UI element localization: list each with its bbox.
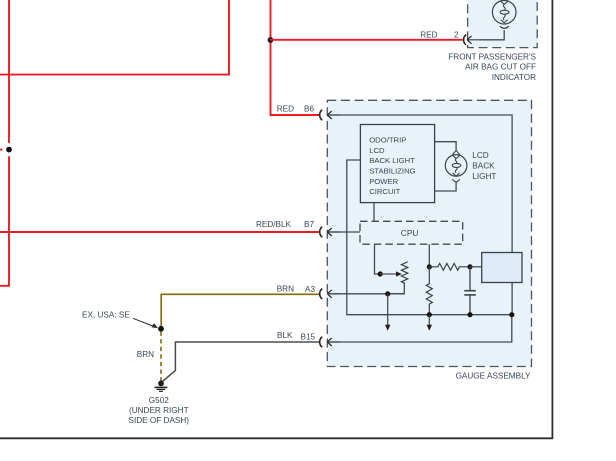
node rail left bbox=[427, 312, 432, 317]
EX USA SE pointer arrow bbox=[133, 318, 158, 328]
gauge: solid box right component bbox=[482, 253, 522, 283]
air bag indicator box (dashed, light blue fill) bbox=[468, 0, 538, 48]
gauge: wires to LCD bulb bbox=[435, 142, 457, 191]
connector B15 arrow bbox=[327, 338, 340, 346]
lamp: LCD back light bbox=[445, 150, 467, 182]
connector B6 arrow bbox=[327, 111, 340, 119]
wire red/blk to B7 bbox=[0, 231, 319, 233]
wire A3 node down arrow bbox=[385, 294, 390, 331]
svg-text:B6: B6 bbox=[304, 104, 314, 113]
wire red stub left of node bbox=[0, 149, 3, 151]
gauge: wire B7 to CPU bbox=[328, 231, 361, 233]
svg-text:ODO/TRIP: ODO/TRIP bbox=[369, 136, 406, 145]
connector A3 arrow bbox=[327, 290, 340, 298]
svg-text:A3: A3 bbox=[305, 285, 315, 294]
svg-text:RED/BLK: RED/BLK bbox=[256, 220, 292, 229]
svg-text:CPU: CPU bbox=[401, 228, 419, 238]
node rail right bbox=[509, 312, 514, 317]
gauge: ODO/TRIP box bbox=[360, 125, 434, 203]
node junction top bbox=[268, 37, 274, 43]
ground G502 bbox=[155, 381, 168, 392]
svg-text:G502: G502 bbox=[149, 396, 169, 405]
svg-text:(UNDER RIGHT: (UNDER RIGHT bbox=[129, 406, 189, 415]
wire brn dashed to ground bbox=[160, 332, 162, 382]
gauge: wire B15 bbox=[328, 315, 512, 342]
svg-text:CIRCUIT: CIRCUIT bbox=[369, 187, 400, 196]
gauge: ODO box text bbox=[369, 136, 415, 197]
connector B6 (female arc) bbox=[320, 110, 323, 120]
resistor vertical bbox=[426, 267, 432, 315]
svg-text:BRN: BRN bbox=[277, 285, 294, 294]
svg-text:B7: B7 bbox=[304, 220, 314, 229]
wire brn to A3 bbox=[161, 294, 319, 329]
svg-text:STABILIZING: STABILIZING bbox=[369, 167, 415, 176]
gauge: wire A3 bbox=[328, 293, 405, 295]
connector pin 2 (female arc) bbox=[464, 35, 467, 45]
node capacitor top bbox=[467, 264, 472, 269]
wire red to air bag indicator pin 2 bbox=[271, 39, 463, 41]
svg-text:B15: B15 bbox=[301, 333, 316, 342]
svg-text:AIR BAG CUT OFF: AIR BAG CUT OFF bbox=[465, 63, 536, 72]
connector B7 (female arc) bbox=[320, 227, 323, 237]
lamp: front passenger's air bag cut off indicator bbox=[492, 0, 516, 28]
wire blk to B15 bbox=[161, 342, 319, 383]
svg-text:LCD: LCD bbox=[472, 151, 488, 160]
gauge: LCD back light label bbox=[472, 151, 496, 181]
svg-text:POWER: POWER bbox=[369, 177, 398, 186]
capacitor C bbox=[464, 267, 476, 315]
node capacitor bottom rail bbox=[467, 312, 472, 317]
svg-text:LIGHT: LIGHT bbox=[472, 172, 496, 181]
svg-text:SIDE OF DASH): SIDE OF DASH) bbox=[129, 416, 190, 425]
svg-text:EX, USA: SE: EX, USA: SE bbox=[82, 310, 130, 319]
svg-text:BACK: BACK bbox=[472, 162, 495, 171]
gauge: wire left rail from ODO box bbox=[347, 160, 512, 315]
wire red vertical left bbox=[0, 0, 9, 286]
connector A3 (female arc) bbox=[320, 289, 323, 299]
svg-text:INDICATOR: INDICATOR bbox=[492, 73, 536, 82]
svg-text:BACK LIGHT: BACK LIGHT bbox=[369, 156, 415, 165]
potentiometer resistive element bbox=[401, 262, 407, 284]
gauge assembly box (dashed, light blue fill) bbox=[327, 100, 531, 366]
node junction brn bbox=[158, 326, 164, 332]
gauge: CPU box (dashed) bbox=[360, 221, 463, 244]
svg-text:FRONT PASSENGER'S: FRONT PASSENGER'S bbox=[448, 52, 536, 61]
gauge: wire ODO box to CPU bbox=[373, 203, 375, 222]
potentiometer wiper arrow bbox=[380, 271, 402, 276]
svg-text:GAUGE ASSEMBLY: GAUGE ASSEMBLY bbox=[456, 371, 531, 380]
wire rail down arrow bbox=[427, 315, 432, 331]
connector pin 2 arrow bbox=[467, 36, 479, 44]
resistor horizontal bbox=[429, 263, 470, 270]
svg-text:LCD: LCD bbox=[369, 146, 385, 155]
connector B15 (female arc) bbox=[320, 337, 323, 347]
node wiper junction bbox=[378, 271, 383, 276]
air bag bulb lead wire bbox=[479, 30, 504, 40]
svg-text:2: 2 bbox=[454, 30, 459, 39]
svg-text:BLK: BLK bbox=[277, 331, 293, 340]
svg-text:BRN: BRN bbox=[137, 350, 154, 359]
svg-text:RED: RED bbox=[277, 104, 294, 113]
node junction left bbox=[6, 147, 12, 153]
node A3 junction bbox=[385, 291, 390, 296]
node resistor top left bbox=[427, 264, 432, 269]
gauge: wire solid box bottom to rail bbox=[511, 283, 513, 315]
gauge: B6 wire to solid box bbox=[328, 115, 513, 253]
wire pot bottom to A3 node bbox=[388, 283, 405, 294]
wire node to solid box bbox=[470, 266, 482, 268]
gauge: wire CPU to resistor node bbox=[428, 244, 430, 267]
wire red to B6 bbox=[271, 0, 320, 115]
node junction left halo bbox=[2, 143, 15, 156]
connector B7 arrow bbox=[327, 228, 340, 236]
wire red upper horizontal bbox=[0, 0, 229, 75]
gauge: wire CPU to wiper bbox=[375, 244, 381, 274]
svg-text:RED: RED bbox=[420, 30, 437, 39]
